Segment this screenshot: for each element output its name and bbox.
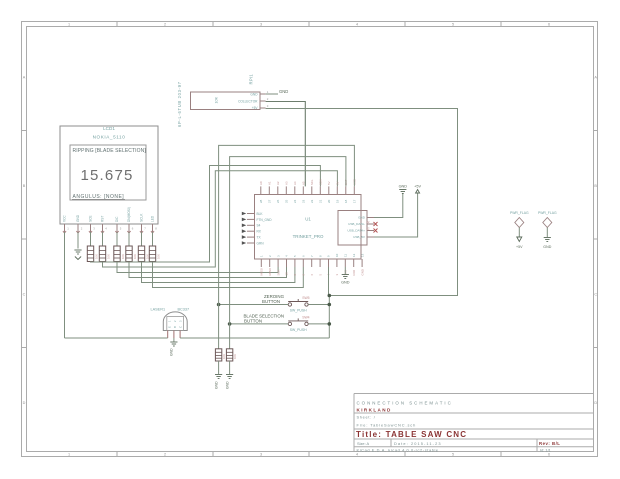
- wire zeroing button right: [308, 304, 329, 306]
- svg-text:GND: GND: [543, 245, 551, 249]
- wire LCD pin7 to resistor: [141, 232, 143, 246]
- svg-text:SW_PUSH: SW_PUSH: [290, 309, 307, 313]
- svg-text:4: 4: [356, 453, 358, 457]
- svg-text:10K: 10K: [156, 254, 160, 259]
- switch SW5 SW_PUSH: [288, 303, 291, 306]
- svg-text:KIRKLAND: KIRKLAND: [357, 408, 392, 413]
- svg-text:MOSI: MOSI: [260, 268, 264, 276]
- svg-text:BUTTON: BUTTON: [262, 299, 280, 304]
- svg-text:A1: A1: [268, 181, 272, 185]
- resistor R7 (zeroing pull-down): [215, 349, 221, 361]
- svg-text:A: A: [23, 75, 26, 79]
- svg-text:GND: GND: [399, 185, 408, 189]
- svg-text:15.675: 15.675: [80, 167, 133, 184]
- op-amp U1 TRINKET_PRO main body: [255, 195, 362, 260]
- svg-text:GND: GND: [358, 216, 366, 220]
- svg-text:SCE: SCE: [89, 215, 93, 222]
- svg-text:File: TableSawCNC.sch: File: TableSawCNC.sch: [357, 423, 417, 428]
- svg-text:PWR_FLAG: PWR_FLAG: [538, 211, 557, 215]
- svg-text:10K: 10K: [222, 354, 226, 359]
- wire RPI1 pin1 to GND label: [266, 93, 278, 95]
- svg-text:E: E: [168, 326, 172, 328]
- no-connect X on USB_DATA-: [374, 222, 378, 226]
- svg-text:24: 24: [293, 199, 297, 203]
- svg-text:A4: A4: [293, 181, 297, 185]
- wire LCD pin1 (VCC) down to bottom rail: [64, 232, 66, 338]
- svg-text:3V: 3V: [336, 181, 340, 185]
- wire zeroing button pull-down: [218, 305, 220, 349]
- wire R1 to U1 top pin (wrap-around): [91, 166, 321, 263]
- svg-text:BUTTON: BUTTON: [244, 318, 262, 323]
- resistor R4: [126, 246, 132, 262]
- svg-text:SCL: SCL: [310, 179, 314, 185]
- svg-text:GND: GND: [250, 92, 258, 96]
- svg-text:GND: GND: [341, 281, 350, 285]
- svg-text:22: 22: [310, 199, 314, 203]
- ground symbol below U1: [342, 275, 349, 279]
- LCD screen area: [70, 145, 146, 200]
- resistor R3: [114, 246, 120, 262]
- LCD pins 1-8 with names: [64, 224, 66, 232]
- svg-text:10: 10: [285, 272, 289, 276]
- resistor R8 (blade pull-down): [226, 349, 232, 361]
- svg-text:A: A: [594, 75, 597, 79]
- junction zeroing left: [217, 303, 221, 307]
- ground symbol below R7: [215, 375, 222, 379]
- svg-text:DN(MOSI): DN(MOSI): [127, 207, 131, 222]
- svg-text:25: 25: [285, 199, 289, 203]
- svg-text:12: 12: [352, 253, 356, 257]
- wire blade button left: [230, 323, 289, 325]
- svg-text:5: 5: [452, 23, 454, 27]
- svg-text:USB_DATA+: USB_DATA+: [347, 229, 365, 233]
- svg-text:BC337: BC337: [178, 308, 190, 312]
- svg-text:PWR_FLAG: PWR_FLAG: [510, 211, 529, 215]
- svg-text:RST: RST: [101, 216, 105, 222]
- wire blade net vertical (button to U1 top pin wrap): [230, 157, 346, 324]
- svg-text:21: 21: [319, 199, 323, 203]
- svg-text:RIPPING [BLADE SELECTION]: RIPPING [BLADE SELECTION]: [73, 148, 147, 154]
- svg-text:GRN: GRN: [257, 241, 265, 245]
- ground symbol below LASER1: [170, 342, 177, 346]
- svg-text:Title: TABLE SAW CNC: Title: TABLE SAW CNC: [356, 430, 467, 439]
- svg-text:BLK: BLK: [257, 212, 264, 216]
- svg-text:23: 23: [302, 199, 306, 203]
- svg-text:SDA: SDA: [319, 179, 323, 185]
- wire R7 to gnd: [218, 361, 220, 374]
- wire LCD pin8 to resistor: [152, 232, 154, 246]
- svg-text:Date: 2015-11-23: Date: 2015-11-23: [394, 441, 442, 446]
- wire LCD pin2 to ground: [77, 232, 79, 249]
- connector RPI1 (6P-L-6TUB 203-97): [191, 92, 261, 110]
- wire USB_5V pin to +5V symbol: [374, 193, 418, 237]
- svg-text:6: 6: [548, 23, 550, 27]
- wire LCD pin3 to resistor: [90, 232, 92, 246]
- wire LCD pin5 to resistor: [116, 232, 118, 246]
- wire LCD pin4 to resistor: [102, 232, 104, 246]
- svg-text:5: 5: [452, 453, 454, 457]
- wire zeroing net vertical (button to U1 top pin wrap): [219, 145, 355, 304]
- svg-text:USB_5V: USB_5V: [353, 235, 366, 239]
- svg-text:1: 1: [68, 453, 70, 457]
- svg-text:GND: GND: [360, 269, 364, 275]
- svg-text:LED: LED: [151, 215, 155, 222]
- junction blade right: [328, 322, 332, 326]
- wire R8 to gnd: [229, 361, 231, 374]
- svg-text:28: 28: [259, 199, 263, 203]
- svg-text:10K: 10K: [121, 254, 125, 259]
- svg-text:10K: 10K: [106, 254, 110, 259]
- svg-text:SW5: SW5: [302, 296, 309, 300]
- svg-text:USB_DATA-: USB_DATA-: [348, 222, 365, 226]
- title block: [354, 393, 594, 395]
- wire R6 to U1 bottom pin: [153, 262, 304, 288]
- wire bottom rail right segment: [180, 337, 329, 339]
- svg-text:D: D: [23, 401, 26, 405]
- junction node collector/rail: [328, 294, 332, 298]
- svg-text:26: 26: [276, 199, 280, 203]
- svg-text:5V: 5V: [327, 181, 331, 185]
- wire R2 to U1 top pin (wrap-around): [103, 171, 338, 267]
- svg-text:LCD1: LCD1: [103, 126, 115, 131]
- svg-text:20: 20: [327, 199, 331, 203]
- ground symbol (USB GND): [399, 190, 406, 194]
- svg-text:10K: 10K: [215, 96, 219, 103]
- svg-text:+5V: +5V: [414, 185, 421, 189]
- svg-text:A3: A3: [285, 181, 289, 185]
- svg-text:27: 27: [268, 199, 272, 203]
- U1 bottom pins: [260, 259, 262, 267]
- switch SW4 SW_PUSH: [288, 322, 291, 325]
- svg-text:GND: GND: [214, 381, 218, 389]
- svg-text:S4: S4: [257, 224, 261, 228]
- junction blade left: [228, 322, 232, 326]
- svg-text:10K: 10K: [233, 354, 237, 359]
- svg-text:18: 18: [344, 199, 348, 203]
- svg-text:GND: GND: [76, 214, 80, 222]
- svg-text:22: 22: [366, 220, 370, 224]
- svg-text:Sheet: /: Sheet: /: [357, 415, 376, 420]
- LCD module LCD1 NOKIA_5110: [60, 126, 158, 224]
- resistor R6: [149, 246, 155, 262]
- svg-text:COLLECTOR: COLLECTOR: [238, 99, 258, 103]
- svg-text:B: B: [23, 184, 26, 188]
- svg-text:4: 4: [356, 23, 358, 27]
- svg-text:3: 3: [260, 23, 262, 27]
- svg-text:1: 1: [68, 23, 70, 27]
- wire RPI1 pin3 right and down to +5V rail junction: [266, 109, 458, 296]
- wire bottom rail left segment: [65, 337, 168, 339]
- svg-text:MISO: MISO: [268, 267, 272, 275]
- svg-text:B: B: [173, 326, 177, 328]
- power symbol +5V: [416, 190, 420, 194]
- U1 left pins: [247, 213, 255, 215]
- svg-text:NOKIA_5110: NOKIA_5110: [93, 135, 126, 140]
- svg-text:10K: 10K: [145, 254, 149, 259]
- U1 USB sub-block: [338, 211, 367, 246]
- svg-text:B: B: [594, 184, 597, 188]
- wire RPI1 pin2 down to U1 top pin (collector net): [266, 102, 306, 187]
- svg-text:SCLK: SCLK: [140, 213, 144, 222]
- wire R5 to U1 bottom pin: [142, 262, 295, 283]
- svg-text:A0: A0: [259, 181, 263, 185]
- svg-text:C: C: [23, 292, 26, 296]
- U1 top pins: [260, 186, 262, 194]
- svg-text:13: 13: [360, 253, 364, 257]
- svg-text:TRINKET_PRO: TRINKET_PRO: [293, 234, 324, 239]
- svg-text:A2: A2: [276, 181, 280, 185]
- svg-text:C: C: [594, 292, 597, 296]
- svg-text:22: 22: [366, 226, 370, 230]
- svg-text:19: 19: [336, 199, 340, 203]
- ground symbol below LCD pin2: [74, 250, 81, 254]
- wire U1 bottom pin to +5V rail (right vertical): [328, 267, 330, 296]
- svg-text:3: 3: [260, 453, 262, 457]
- junction zeroing right: [328, 303, 332, 307]
- wire U1 GND pin: [344, 267, 346, 274]
- wire blade button pull-down: [229, 324, 231, 349]
- RPI1 pins 1,2,3: [260, 93, 266, 95]
- svg-text:11: 11: [344, 254, 348, 257]
- svg-text:SCK: SCK: [276, 269, 280, 275]
- wire blade button right: [308, 323, 329, 325]
- wire USB GND pin to GND symbol: [374, 193, 403, 218]
- svg-text:A5: A5: [302, 181, 306, 185]
- svg-text:Rev: B/L: Rev: B/L: [539, 441, 560, 446]
- svg-text:D/C: D/C: [115, 216, 119, 222]
- svg-text:10K: 10K: [94, 254, 98, 259]
- svg-text:6: 6: [548, 453, 550, 457]
- wire R3 to U1 bottom pin: [117, 262, 278, 273]
- svg-text:10: 10: [335, 253, 339, 257]
- wire R4 to U1 bottom pin: [129, 262, 287, 278]
- svg-text:KiCad E.D.A. kicad 4.0.0-rc2-: KiCad E.D.A. kicad 4.0.0-rc2-stable: [357, 447, 439, 452]
- svg-text:2: 2: [164, 453, 166, 457]
- svg-text:VCC: VCC: [63, 215, 67, 222]
- ground symbol below R8: [226, 375, 233, 379]
- svg-text:C: C: [179, 326, 183, 328]
- svg-text:GND: GND: [225, 381, 229, 389]
- svg-text:+5V: +5V: [516, 245, 523, 249]
- resistor R2: [99, 246, 105, 262]
- resistor R5: [138, 246, 144, 262]
- transistor LASER1 BC337 package: [163, 312, 187, 331]
- svg-text:6P-L-6TUB 203-97: 6P-L-6TUB 203-97: [177, 81, 182, 127]
- no-connect X on USB_DATA+: [374, 229, 378, 233]
- svg-text:Size: A: Size: A: [357, 441, 370, 446]
- svg-text:GND: GND: [170, 348, 174, 356]
- svg-text:FTN_GND: FTN_GND: [257, 218, 273, 222]
- wire LASER1 middle pin to gnd: [173, 338, 175, 342]
- svg-text:10K: 10K: [133, 254, 137, 259]
- svg-text:SW4: SW4: [302, 315, 309, 319]
- svg-text:SW_PUSH: SW_PUSH: [290, 328, 307, 332]
- svg-text:U1: U1: [305, 217, 311, 222]
- svg-text:D: D: [594, 401, 597, 405]
- svg-text:RPI1: RPI1: [249, 74, 254, 85]
- svg-text:GND: GND: [279, 89, 288, 94]
- svg-text:CONNECTION SCHEMATIC: CONNECTION SCHEMATIC: [357, 401, 453, 406]
- wire LCD pin6 to resistor: [128, 232, 130, 246]
- wire zeroing button left: [219, 304, 289, 306]
- svg-text:2: 2: [164, 23, 166, 27]
- svg-text:RX0: RX0: [352, 269, 356, 275]
- svg-text:Id: 1/1: Id: 1/1: [540, 447, 551, 452]
- resistor R1: [87, 246, 93, 262]
- svg-text:LASER1: LASER1: [151, 308, 166, 312]
- svg-text:+5V: +5V: [252, 106, 259, 110]
- LASER1 pins: [167, 331, 169, 339]
- svg-text:17: 17: [353, 199, 357, 203]
